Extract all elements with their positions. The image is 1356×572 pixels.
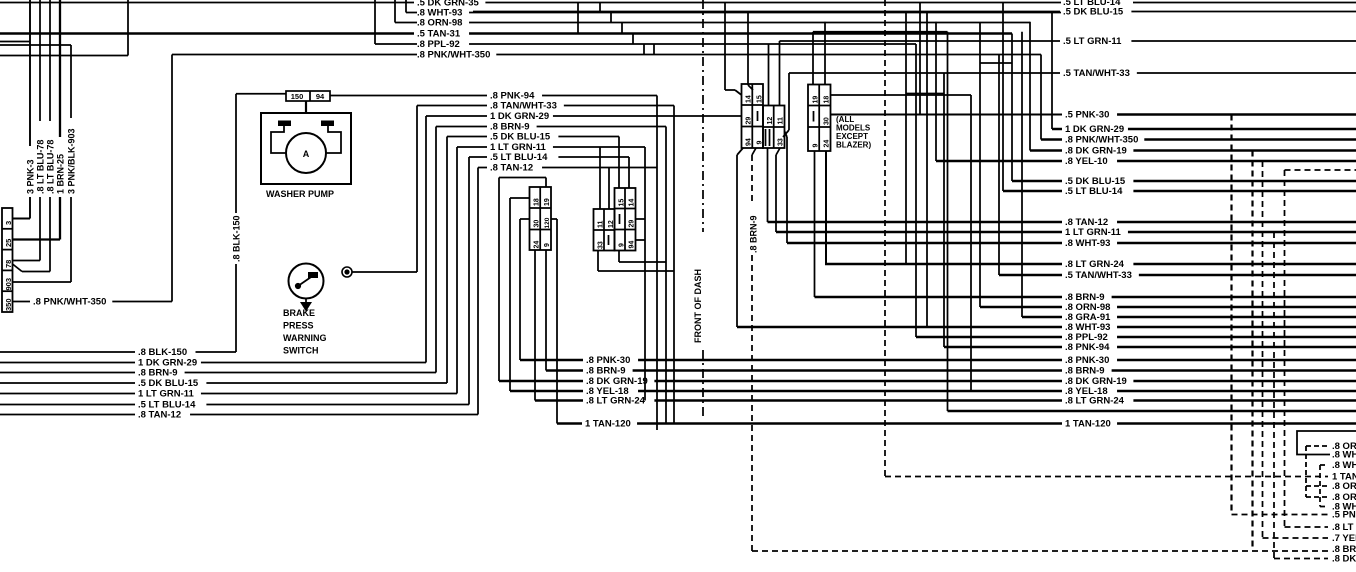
svg-text:1 DK GRN-29: 1 DK GRN-29 <box>490 111 549 122</box>
washer pump connector 150/94 box <box>286 91 330 101</box>
svg-text:11: 11 <box>777 117 784 125</box>
svg-text:.8 BRN-9: .8 BRN-9 <box>586 366 626 377</box>
connector block C2 engine-side outline left cols <box>742 84 764 148</box>
svg-text:29: 29 <box>746 117 753 125</box>
svg-text:FRONT OF DASH: FRONT OF DASH <box>693 269 703 343</box>
dashed branch .8 DK stub <box>1274 558 1328 560</box>
svg-text:1 LT GRN-11: 1 LT GRN-11 <box>138 389 194 400</box>
svg-text:.5 LT BLU-14: .5 LT BLU-14 <box>490 152 548 163</box>
wire .5 TAN/WHT-33 label row <box>999 274 1062 277</box>
dashed branch .5 PNK-30 vertical <box>1230 115 1232 515</box>
svg-text:24: 24 <box>534 241 541 249</box>
svg-text:18: 18 <box>823 96 830 104</box>
connector strip C (left edge) outline <box>2 208 13 312</box>
cluster dashed vertical x1306 <box>1305 446 1307 497</box>
wire 18 riser from engine cell 18 <box>824 22 826 85</box>
wire .5 LT BLU-14 lower run <box>0 404 135 406</box>
wire bundle riser x916 PPL-92 <box>915 44 917 337</box>
connector block C2 outline left cols <box>594 209 615 251</box>
svg-text:1 TAN-120: 1 TAN-120 <box>1065 419 1111 430</box>
svg-text:14: 14 <box>629 199 636 207</box>
wire .8 TAN-12 riser to lower run <box>477 168 479 415</box>
wire cell 33 exit down and right <box>597 251 599 272</box>
washer pump connector divider <box>309 91 311 101</box>
wire .5 PNK-30 from engine cell 30 <box>831 114 1063 116</box>
washer pump motor circle <box>286 133 326 173</box>
wire .8 YEL-18 long drop <box>970 95 972 391</box>
wire .8 WHT-93 second drop from cell 33 side <box>785 131 788 137</box>
wire .8 PPL-92 stub from top edge <box>374 0 376 44</box>
svg-text:.7 YEL-1: .7 YEL-1 <box>1332 533 1356 544</box>
svg-text:.8 WHT-93: .8 WHT-93 <box>1065 238 1110 249</box>
svg-text:150: 150 <box>291 92 304 101</box>
washer pump connector stub to pump body <box>305 101 307 113</box>
wire .5 LT GRN-11 top right <box>780 40 1061 42</box>
svg-text:.5 DK BLU-15: .5 DK BLU-15 <box>490 132 551 143</box>
cluster label .8 WHT third <box>1320 506 1328 508</box>
wire bundle riser x1003 LT BLU-14 <box>1002 3 1004 192</box>
wire .8 LT GRN-24 lower run with labels <box>535 399 583 402</box>
svg-text:9: 9 <box>812 144 819 148</box>
svg-text:24: 24 <box>823 140 830 148</box>
cluster label .8 ORN third <box>1306 496 1328 498</box>
wire .5 TAN-31 long horizontal from left edge <box>0 32 414 35</box>
svg-text:19: 19 <box>812 96 819 104</box>
wire .8 TAN-12 drop into cell 12 <box>608 168 610 210</box>
wire .8 PNK-94 from pump connector 94 cell <box>330 95 487 97</box>
svg-text:.8 PNK-30: .8 PNK-30 <box>1065 355 1109 366</box>
cluster label .8 ORN second <box>1306 485 1328 487</box>
wire 1 LT GRN-11 riser to lower run <box>456 147 458 394</box>
svg-text:33: 33 <box>598 241 605 249</box>
wire .8 BRN-9 dashed drop from engine cell 9 <box>751 155 753 204</box>
svg-text:.5 PNK-30: .5 PNK-30 <box>1065 110 1109 121</box>
dashed branch .5 PNK stub <box>1232 514 1329 516</box>
wire .5 LT BLU-14 drop into engine cell 14 <box>724 3 726 91</box>
wire 1 DK GRN-29 lower run <box>0 362 135 364</box>
cluster label .8 ORN first <box>1306 445 1328 447</box>
wire 1 DK GRN-29 label and line <box>426 115 487 117</box>
wire .5 DK BLU-15 drop into cell 15 <box>618 137 620 189</box>
svg-text:.8 LT GRN: .8 LT GRN <box>1332 522 1356 533</box>
wire cell 18 exit to YEL-18 drop <box>510 197 530 199</box>
dashed branch DK GRN-19 vertical <box>1251 151 1253 550</box>
svg-text:BLAZER): BLAZER) <box>836 141 871 150</box>
connector block C2 column dividers <box>603 209 605 251</box>
wire .8 PNK/WHT-350 vertical riser <box>171 55 173 302</box>
washer pump internal wiring right <box>326 126 341 153</box>
wire riser x947.5 <box>947 32 949 411</box>
wire .5 DK BLU-15 label and line <box>447 136 487 138</box>
wire .8 BRN-9 lower run <box>0 372 135 374</box>
svg-text:.8 WHT-90: .8 WHT-90 <box>1332 460 1356 471</box>
wire .5 DK BLU-15 top right label <box>473 11 1060 13</box>
connector block C2 engine-side col dividers <box>751 84 753 148</box>
svg-text:350: 350 <box>4 298 13 311</box>
svg-text:19: 19 <box>544 198 551 206</box>
dashed branch from right edge vertical <box>1284 170 1286 527</box>
brake press warning switch inner contact dot <box>295 283 300 288</box>
wire .5 DK BLU-15 label row <box>1012 180 1062 183</box>
wire .8 LT GRN-24 label row <box>825 263 1062 266</box>
svg-text:.8 BLK-150: .8 BLK-150 <box>138 347 187 358</box>
wire .8 PNK/WHT-350 label row <box>1041 138 1062 141</box>
svg-text:18: 18 <box>534 198 541 206</box>
svg-text:PRESS: PRESS <box>283 321 314 331</box>
svg-text:.8 PNK/WHT-350: .8 PNK/WHT-350 <box>417 50 490 61</box>
connector block C1 column divider <box>539 187 541 250</box>
brake press warning switch lever <box>298 275 314 286</box>
svg-text:.8 PPL-92: .8 PPL-92 <box>417 39 460 50</box>
svg-text:.8 PNK-94: .8 PNK-94 <box>1065 342 1110 353</box>
wire cell 94 exit right <box>636 239 646 241</box>
svg-text:.5 TAN-31: .5 TAN-31 <box>417 29 461 40</box>
wire jog staircase segment A <box>577 3 579 34</box>
wire 1 LT GRN-11 lower run <box>0 393 135 395</box>
svg-text:.8 PNK/WHT-350: .8 PNK/WHT-350 <box>1065 135 1138 146</box>
svg-text:25: 25 <box>4 239 13 247</box>
wire cell 94 engine-side diagonal exit <box>737 148 743 155</box>
wire jog staircase segment C <box>610 13 612 23</box>
svg-text:.8 WHT-93: .8 WHT-93 <box>1332 450 1356 461</box>
svg-text:.5 LT GRN-11: .5 LT GRN-11 <box>1063 36 1122 47</box>
svg-text:15: 15 <box>619 199 626 207</box>
wire .8 ORN-98 label row <box>980 306 1062 309</box>
svg-text:.8 BRN-9: .8 BRN-9 <box>1065 366 1105 377</box>
wire .8 PPL-92 label row <box>916 336 1062 339</box>
wire .8 DK GRN-19 lower run with labels <box>499 380 583 383</box>
wire cell 120 exit to TAN-120 drop <box>551 218 557 220</box>
wire cell 9 exit down and right <box>618 251 620 263</box>
wire riser x666 down <box>665 127 667 424</box>
wire .5 LT BLU-14 drop into cell 14 <box>628 157 630 188</box>
svg-text:30: 30 <box>823 117 830 125</box>
svg-text:.8 ORN-9: .8 ORN-9 <box>1332 481 1356 492</box>
wire nest jog A <box>906 93 944 95</box>
wire cell 12 pass-through down to TAN-12 row <box>765 129 767 146</box>
wire .8 WHT-93 stub from top edge <box>405 0 407 13</box>
cluster dashed vertical x1320 <box>1319 465 1321 507</box>
wire nest jog B <box>980 62 1012 64</box>
wire .8 TAN/WHT-33 riser <box>416 106 418 273</box>
wire .8 TAN/WHT-33 from bullet connector <box>352 271 417 273</box>
wire bundle riser x1030 DK GRN-19 <box>1029 22 1031 151</box>
wire cell 30 exit to PNK-30 drop <box>520 218 530 220</box>
wire .8 PNK/WHT-350 from connector cell <box>13 301 31 303</box>
wire .8 PNK-94 label row <box>944 346 1062 349</box>
wire .8 BRN-9 lower run with labels <box>546 369 583 372</box>
wire unnamed thick run <box>948 410 1356 413</box>
connector block C1 engine-side blank mark <box>813 111 815 122</box>
svg-text:1 BRN-25: 1 BRN-25 <box>56 154 66 194</box>
svg-text:1 TAN-120: 1 TAN-120 <box>585 419 631 430</box>
wire .8 BRN-9 label and line <box>436 126 487 128</box>
wire .8 BLK-150 from pump connector <box>236 93 286 95</box>
svg-text:12: 12 <box>767 117 774 125</box>
wire .8 YEL-18 drop to lower run <box>509 198 511 391</box>
wire solid loop from right edge <box>1297 431 1356 455</box>
svg-text:14: 14 <box>746 95 753 103</box>
wire .8 LT BLU-78 second vertical <box>49 0 51 121</box>
svg-text:.8 BLK-150: .8 BLK-150 <box>232 215 242 262</box>
front of dash boundary line lower <box>702 350 704 418</box>
wire jog staircase segment E <box>632 34 634 45</box>
washer pump body box <box>261 113 351 184</box>
svg-text:9: 9 <box>544 243 551 247</box>
svg-text:30: 30 <box>534 220 541 228</box>
wire .8 TAN-12 lower run <box>0 414 135 416</box>
wire .5 DK GRN-35 / .5 LT BLU-14 continuation to right edge <box>485 2 1061 4</box>
wire .8 PNK/WHT-350 upper horizontal <box>172 54 417 56</box>
brake press warning switch contact pad <box>308 272 318 278</box>
svg-text:.5 DK BLU-15: .5 DK BLU-15 <box>1063 7 1124 18</box>
dashed branch from right edge horizontal <box>1285 169 1356 171</box>
brake press warning switch stem <box>305 299 307 303</box>
wire .8 YEL-18 lower run with labels <box>510 390 583 393</box>
dashed long horizontal 1 TAN branch <box>885 476 1328 478</box>
svg-text:.8 TAN/WHT-33: .8 TAN/WHT-33 <box>490 101 557 112</box>
wire 1 DK GRN-29 riser to lower run <box>425 116 427 363</box>
wire .8 PNK-30 drop to lower run <box>519 219 521 360</box>
wire cell 19 jumper to DK GRN-19 drop <box>545 178 547 188</box>
svg-text:.8 LT BLU-78: .8 LT BLU-78 <box>46 140 56 194</box>
wire .5 LT BLU-14 label row <box>1003 190 1062 193</box>
wire cell 12 riser to PPL line <box>768 44 770 106</box>
svg-text:9: 9 <box>619 243 626 247</box>
svg-text:.8 ORN-98: .8 ORN-98 <box>417 18 462 29</box>
svg-text:.8 YEL-10: .8 YEL-10 <box>1065 156 1108 167</box>
svg-text:.5 PNK-3: .5 PNK-3 <box>1332 510 1356 521</box>
wire .5 LT BLU-14 label and line <box>469 156 487 158</box>
connector block C1 row dividers <box>530 207 552 209</box>
connector block C1 engine-side outline <box>808 85 831 152</box>
svg-text:903: 903 <box>4 278 13 291</box>
svg-text:120: 120 <box>544 217 551 228</box>
connector block C2 engine-side blank mark <box>757 111 759 121</box>
svg-text:.8 LT BLU-78: .8 LT BLU-78 <box>36 140 46 194</box>
svg-text:1 LT GRN-11: 1 LT GRN-11 <box>1065 227 1121 238</box>
svg-text:29: 29 <box>629 220 636 228</box>
svg-text:9: 9 <box>756 141 763 145</box>
wire 3 PNK/BLK-903 vertical <box>70 45 72 118</box>
connector block C1 engine-side col divider <box>818 85 820 152</box>
svg-text:11: 11 <box>598 220 605 228</box>
wire 3 PNK/BLK-903 top horizontal to left edge <box>0 44 71 46</box>
svg-text:.5 TAN/WHT-33: .5 TAN/WHT-33 <box>1063 68 1130 79</box>
dashed vertical x885 <box>884 0 886 477</box>
wire jog staircase segment D <box>621 23 623 34</box>
dashed branch .7 YEL stub <box>1263 537 1329 539</box>
wire cell 29 exit right <box>636 218 646 220</box>
svg-text:.8 LT GRN-24: .8 LT GRN-24 <box>1065 396 1125 407</box>
wire bundle riser x1041 PNK-WHT-350 <box>1040 55 1042 140</box>
dashed branch LT GRN vertical <box>1273 232 1275 559</box>
wire .5 DK GRN-35 long horizontal from left edge <box>0 2 414 4</box>
svg-text:94: 94 <box>316 92 325 101</box>
wire .8 YEL-18 from engine cell 18 right exit <box>831 94 972 96</box>
connector block C2 cell blank mark lower left <box>608 235 610 245</box>
wire .5 DK BLU-15 lower run <box>0 382 135 384</box>
svg-text:.8 BRN-9: .8 BRN-9 <box>138 368 178 379</box>
wire bundle riser x1022 GRA-91 <box>1021 32 1023 317</box>
connector block C1 engine-side row dividers <box>808 105 831 107</box>
brake press warning switch arrow <box>300 302 312 312</box>
wire .8 TAN-12 label and line <box>478 167 487 169</box>
svg-text:BRAKE: BRAKE <box>283 308 315 318</box>
wire .5 TAN/WHT-33 top right <box>789 72 1060 74</box>
svg-text:.8 TAN-12: .8 TAN-12 <box>490 163 533 174</box>
wire into engine cell 33 from above <box>788 73 790 130</box>
wire stub left edge to PNK-3 <box>0 41 30 43</box>
svg-text:33: 33 <box>777 138 784 146</box>
svg-text:15: 15 <box>756 95 763 103</box>
wire 1 BRN-25 vertical <box>59 0 61 137</box>
svg-text:A: A <box>303 149 310 159</box>
wire bundle riser x906 <box>905 12 907 265</box>
wire .8 DK GRN-19 upper horizontal <box>813 31 948 33</box>
wire 3 PNK-3 vertical <box>29 0 31 146</box>
wire .8 BLK-150 vertical with label <box>235 94 237 213</box>
connector strip cell dividers <box>2 228 13 230</box>
wire bundle riser x927 WHT-93 <box>926 12 928 328</box>
svg-text:94: 94 <box>746 138 753 146</box>
wire .8 BRN-9 from engine cell 9 down <box>814 151 816 297</box>
brake press warning switch circle <box>289 264 324 299</box>
dashed long horizontal .8 BRN branch <box>752 550 1328 552</box>
wire .8 ORN-98 stub from top edge <box>394 0 396 23</box>
connector block C2 engine-side row dividers <box>742 104 764 106</box>
wire 1 LT GRN-11 label row <box>776 231 1062 234</box>
svg-text:.8 DK GRN: .8 DK GRN <box>1332 554 1356 565</box>
wire .8 DK GRN-19 label row <box>1030 149 1062 152</box>
wire .8 DK GRN-19 riser from engine cell 19 <box>812 32 814 85</box>
svg-text:.8 LT GRN-24: .8 LT GRN-24 <box>586 396 646 407</box>
svg-text:12: 12 <box>608 220 615 228</box>
wire .8 TAN/WHT-33 label and line <box>417 105 487 107</box>
wire bundle riser x920 DK GRN-35 <box>919 3 921 115</box>
wire 1 DK GRN-29 label row <box>1052 128 1062 131</box>
wire .8 LT BLU-78 first vertical <box>39 0 41 121</box>
cluster label .8 WHT second <box>1320 464 1328 466</box>
wire .8 LT GRN-24 from engine cell 24 down <box>825 151 827 264</box>
svg-text:.8 TAN-12: .8 TAN-12 <box>138 410 181 421</box>
wire .8 BLK-150 lower run to left edge <box>0 351 135 353</box>
wire .8 WHT-93 second label row <box>737 326 1062 329</box>
svg-text:.8 BRN-9: .8 BRN-9 <box>749 215 759 253</box>
svg-text:.8 DK GRN-19: .8 DK GRN-19 <box>1065 146 1127 157</box>
wire .8 GRA-91 label row <box>1022 316 1062 319</box>
svg-text:78: 78 <box>4 260 13 268</box>
svg-text:.8 PNK-30: .8 PNK-30 <box>586 355 630 366</box>
wire .8 DK GRN-19 drop to lower run <box>498 178 500 382</box>
dashed branch .8 LT stub <box>1285 526 1329 528</box>
wire bundle riser x999 TAN/WHT-33 <box>998 55 1000 276</box>
dashed branch YEL vertical <box>1262 161 1264 538</box>
wire .8 BRN-9 riser to lower run <box>435 127 437 373</box>
wire .5 DK BLU-15 drop into engine cell 15 <box>747 12 749 86</box>
wire jog staircase segment B <box>599 3 601 13</box>
wire 1 TAN-120 lower run with labels <box>557 422 582 425</box>
svg-text:WARNING: WARNING <box>283 333 327 343</box>
wire 1 TAN-120 drop to lower run <box>556 219 558 424</box>
wire to top edge at x=128 <box>0 55 128 57</box>
connector block C2 engine-side outline right cols <box>763 106 785 149</box>
svg-text:SWITCH: SWITCH <box>283 346 319 356</box>
connector block C2 outline right cols <box>615 188 636 251</box>
wire 1 LT GRN-11 from engine cell 33 down <box>776 148 780 155</box>
wire bundle riser x936 YEL-10 <box>935 22 937 161</box>
wire bundle riser x1012 DK BLU-15 <box>1011 34 1013 182</box>
wire cell 24 exit down <box>534 250 536 401</box>
washer pump internal wiring left <box>271 126 286 153</box>
svg-text:.5 DK BLU-15: .5 DK BLU-15 <box>138 378 199 389</box>
wire jog staircase segment G <box>653 44 655 55</box>
washer pump left terminal <box>278 121 291 127</box>
wire 1 LT GRN-11 drop into cell 11 <box>599 147 601 209</box>
svg-text:94: 94 <box>629 241 636 249</box>
wire bundle riser x944 PNK-94 <box>943 73 945 347</box>
svg-text:.5 LT BLU-14: .5 LT BLU-14 <box>1065 186 1123 197</box>
front of dash boundary line upper <box>702 0 704 232</box>
wire .8 PNK-30 lower run with labels <box>520 359 583 362</box>
wire riser x645 down <box>644 147 646 401</box>
wire .5 LT GRN-11 riser from engine cell 11 <box>779 41 781 106</box>
wire riser x657 down <box>656 96 658 431</box>
wire cell 9 engine-side diagonal exit <box>752 148 756 155</box>
wire .8 WHT-93 label row <box>787 242 1062 245</box>
bullet connector on brake switch wire <box>342 267 352 277</box>
wire 1 LT GRN-11 label and line <box>457 146 487 148</box>
wire .5 DK BLU-15 riser to lower run <box>446 137 448 384</box>
connector block C2 cell blank mark mid <box>619 214 621 224</box>
wire bundle riser x980 ORN-98 <box>979 23 981 308</box>
wire riser x674 down <box>673 106 675 424</box>
wire .8 TAN-12 label row <box>768 221 1063 224</box>
svg-text:WASHER PUMP: WASHER PUMP <box>266 189 334 199</box>
washer pump right terminal <box>321 121 334 127</box>
svg-text:3: 3 <box>4 221 13 225</box>
wire .5 LT BLU-14 riser to lower run <box>468 157 470 405</box>
svg-text:.5 TAN/WHT-33: .5 TAN/WHT-33 <box>1065 270 1132 281</box>
wire .8 YEL-10 label row <box>936 160 1062 163</box>
connector block C1 outline <box>530 187 552 250</box>
wire .8 BRN-9 label row <box>815 296 1063 299</box>
svg-text:1 DK GRN-29: 1 DK GRN-29 <box>1065 124 1124 135</box>
wire .8 WHT-93 drop x737 <box>736 155 738 327</box>
wire cell 9 exit down <box>545 250 547 371</box>
svg-text:3 PNK-3: 3 PNK-3 <box>26 159 36 194</box>
svg-text:.8 PNK/WHT-350: .8 PNK/WHT-350 <box>33 297 106 308</box>
wire jog staircase segment F <box>643 44 645 55</box>
wire bundle riser x1052 DK GRN-29 <box>1051 12 1053 130</box>
svg-text:3 PNK/BLK-903: 3 PNK/BLK-903 <box>67 128 77 194</box>
svg-text:.8 LT GRN-24: .8 LT GRN-24 <box>1065 259 1125 270</box>
wire .8 LT BLU-78 second diagonal into cell 78 <box>13 264 23 272</box>
connector block C2 row dividers <box>594 229 615 231</box>
